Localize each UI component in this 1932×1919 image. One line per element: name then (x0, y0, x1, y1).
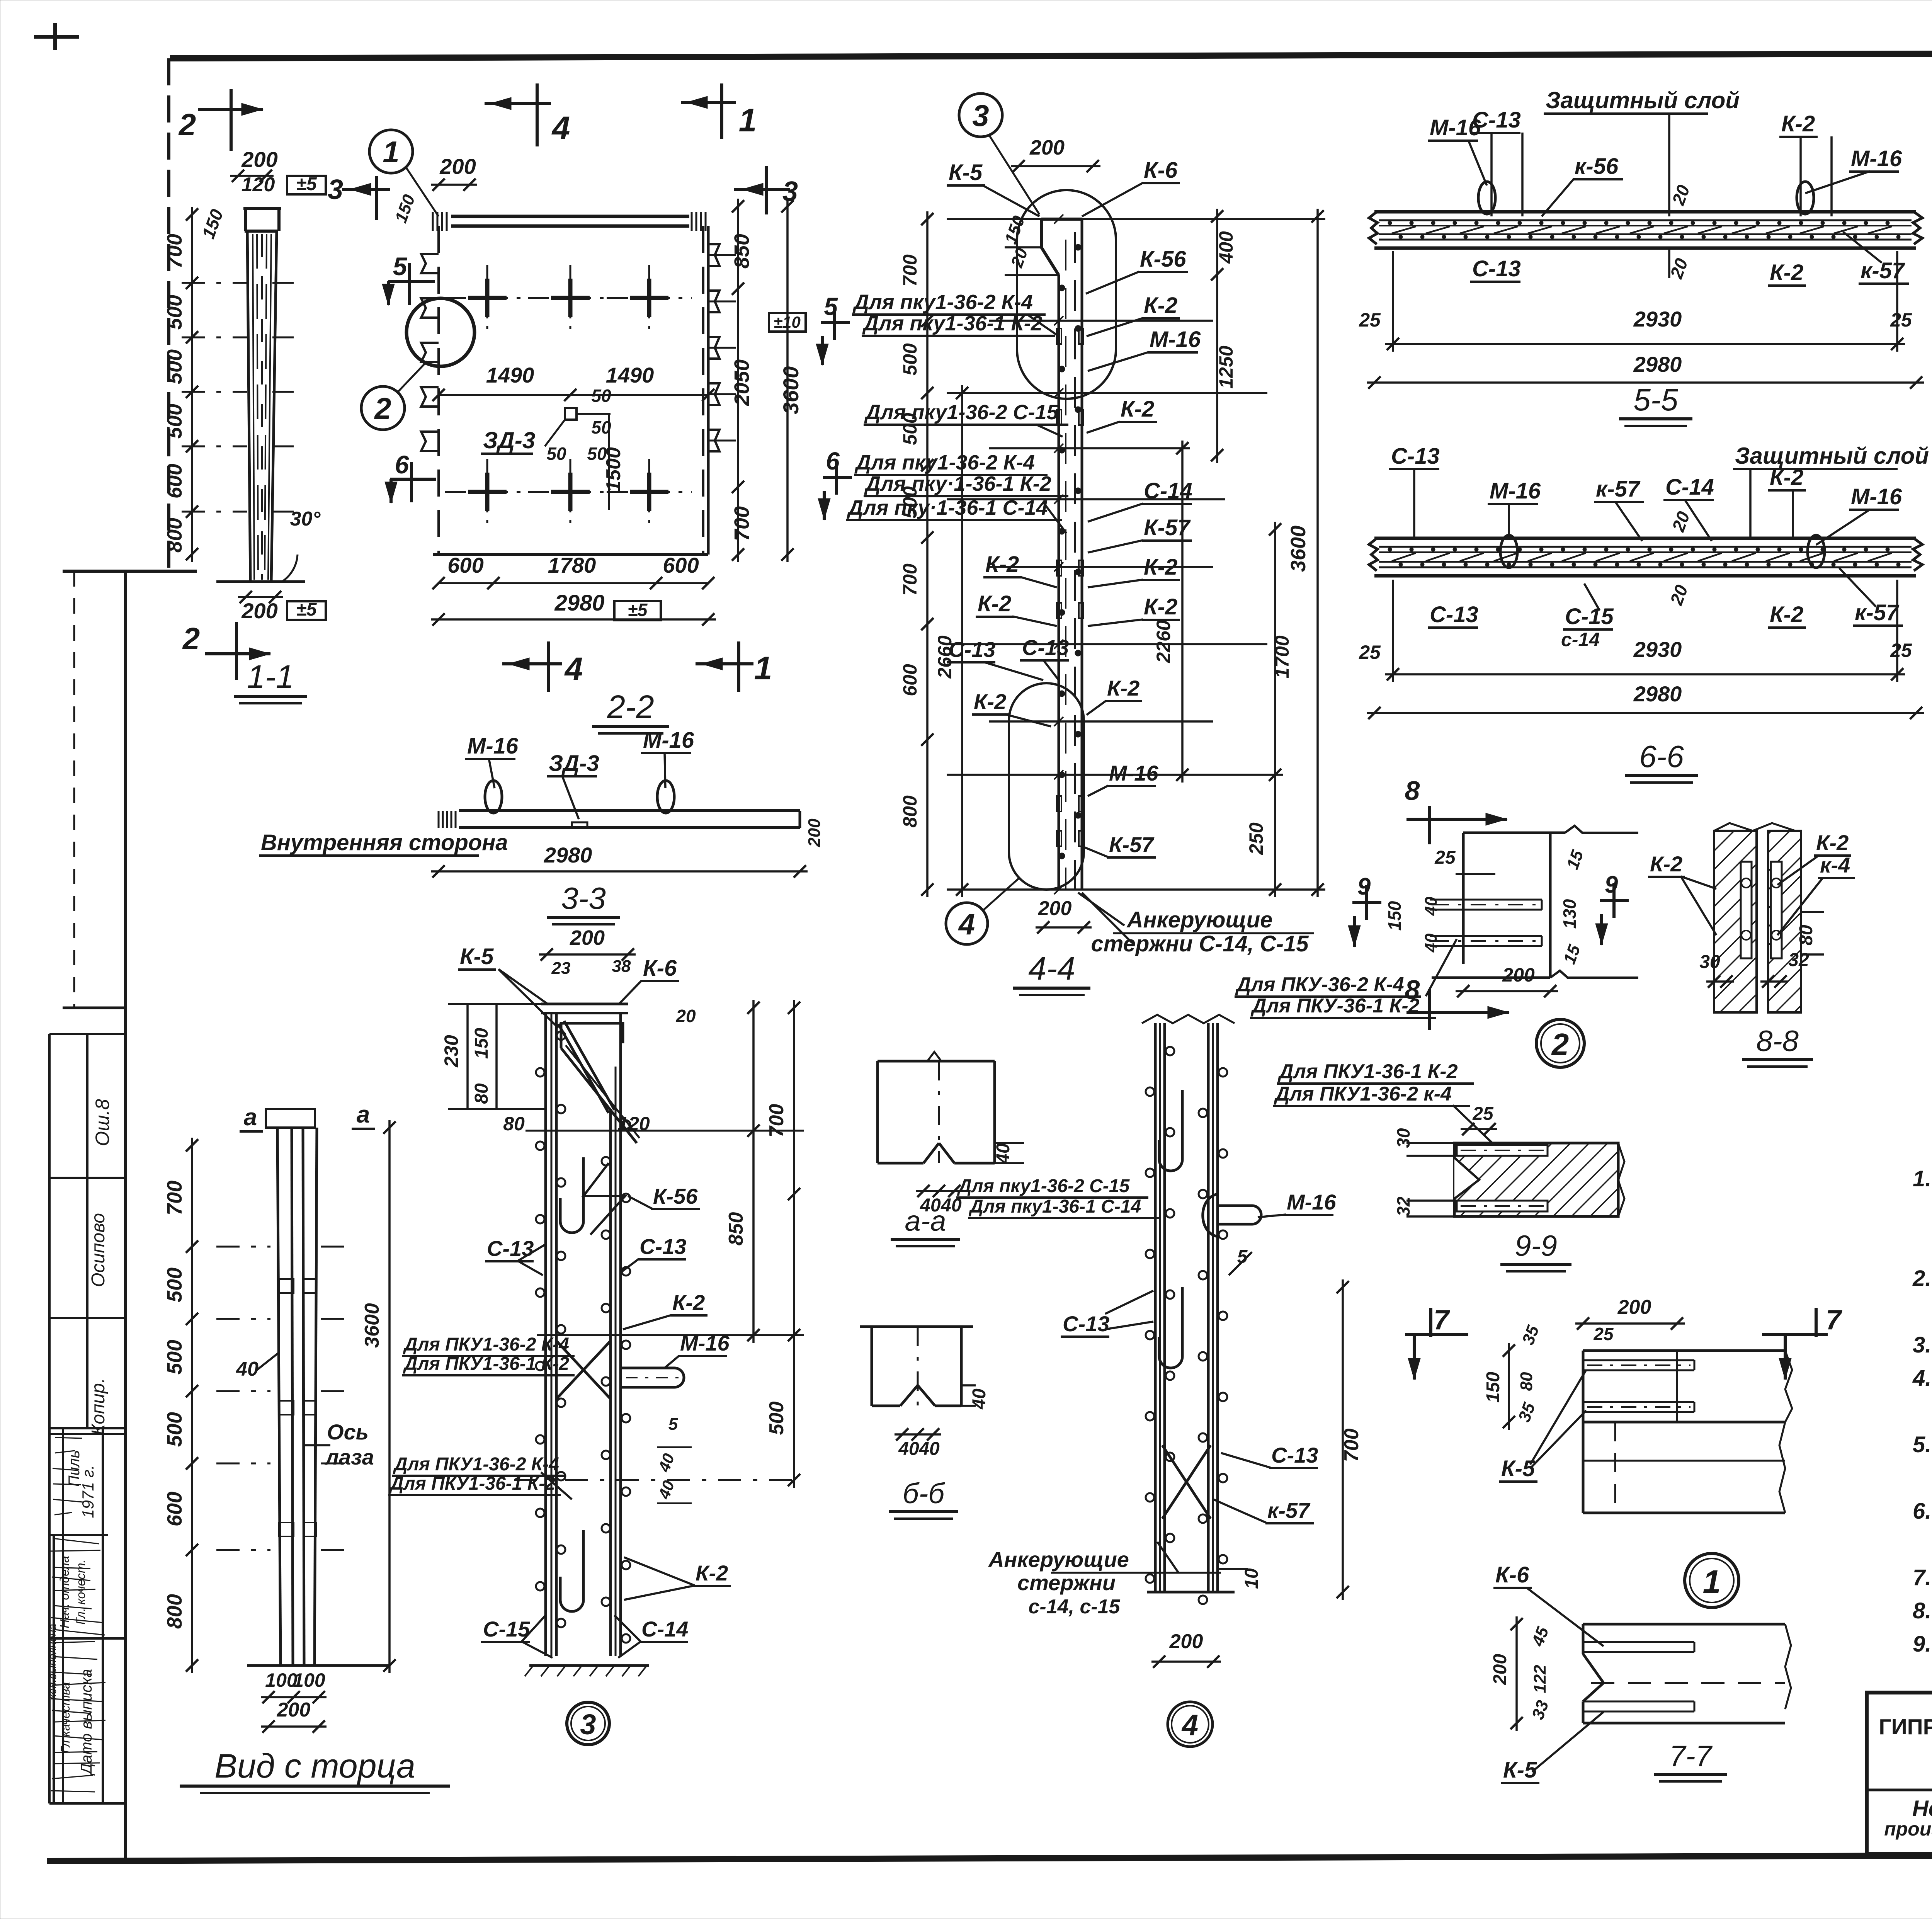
svg-text:М-16: М-16 (1287, 1190, 1336, 1214)
svg-text:а: а (244, 1104, 257, 1131)
svg-text:Для пку1-36-2 С-15: Для пку1-36-2 С-15 (957, 1176, 1130, 1196)
view 1-1 tolerance box top (287, 176, 326, 194)
svg-text:к-57: к-57 (1861, 258, 1905, 283)
svg-text:Ош.8: Ош.8 (92, 1099, 113, 1146)
det77 lower body (1583, 1623, 1785, 1626)
svg-text:80: 80 (503, 1113, 525, 1135)
det8 slots (1430, 899, 1542, 901)
svg-text:230: 230 (440, 1035, 462, 1068)
detail4 hook top (1159, 1090, 1182, 1171)
section 5-5 M-16 loops (1478, 182, 1495, 214)
svg-text:К-2: К-2 (1650, 852, 1682, 876)
svg-text:лаза: лаза (324, 1445, 374, 1469)
svg-text:500: 500 (163, 1267, 186, 1302)
svg-text:С-13: С-13 (1472, 107, 1521, 133)
svg-text:100: 100 (293, 1669, 325, 1691)
svg-text:200: 200 (805, 818, 824, 847)
svg-text:2980: 2980 (544, 843, 592, 867)
sec44 top stadium bubble (1017, 190, 1116, 399)
svg-text:с-14, с-15: с-14, с-15 (1028, 1596, 1120, 1618)
det77 section mark 7 left (1405, 1333, 1468, 1336)
svg-text:Нач. отдела: Нач. отдела (58, 1556, 71, 1628)
svg-text:Для ПКУ1-36-1 К-2: Для ПКУ1-36-1 К-2 (1277, 1060, 1458, 1083)
svg-text:1: 1 (383, 135, 399, 169)
svg-text:±5: ±5 (628, 600, 648, 620)
svg-text:1250: 1250 (1215, 345, 1237, 388)
svg-text:200: 200 (1038, 897, 1072, 920)
detail4 cross brace (1162, 1445, 1211, 1519)
detail4 top break (1142, 1015, 1235, 1023)
sheet frame top border (170, 52, 1932, 58)
svg-text:Анкерующие: Анкерующие (988, 1547, 1129, 1572)
svg-text:Для пку1-36-1 К-2: Для пку1-36-1 К-2 (862, 312, 1043, 335)
circle ref 1 (1685, 1553, 1739, 1608)
detail3 dim 850 right (752, 1000, 755, 1343)
svg-text:3-3: 3-3 (561, 881, 606, 915)
svg-text:2-2: 2-2 (607, 689, 654, 725)
det77 lower slots (1583, 1641, 1694, 1643)
svg-text:Для пку1-36-2 С-15: Для пку1-36-2 С-15 (864, 401, 1059, 424)
detail3 top cap (541, 1003, 628, 1005)
det99 right break (1618, 1143, 1624, 1216)
svg-text:а: а (357, 1101, 370, 1128)
svg-text:Для пку·1-36-1 С-14: Для пку·1-36-1 С-14 (847, 496, 1048, 519)
det99 bar slots (1457, 1145, 1548, 1156)
svg-text:Осипово: Осипово (88, 1213, 109, 1287)
svg-text:25: 25 (1593, 1324, 1614, 1344)
detail3 bent bar diagonal (558, 1024, 609, 1113)
stamp column left dashed edge (73, 571, 75, 1008)
svg-text:Гл. кочест.: Гл. кочест. (74, 1560, 88, 1625)
view 1-1 bar inner strokes (253, 234, 254, 580)
svg-text:Анкерующие: Анкерующие (1126, 907, 1273, 932)
end view top plate (266, 1109, 315, 1128)
svg-text:±5: ±5 (296, 174, 317, 194)
svg-text:700: 700 (1340, 1429, 1363, 1462)
svg-text:3600: 3600 (779, 366, 803, 415)
svg-text:б-б: б-б (903, 1477, 945, 1509)
svg-text:4-4: 4-4 (1028, 950, 1075, 987)
end view ground line (247, 1664, 390, 1667)
svg-text:к-57: к-57 (1267, 1498, 1311, 1523)
svg-text:Для ПКУ1-36-2 К-4: Для ПКУ1-36-2 К-4 (393, 1454, 559, 1475)
sec44 bottom dim 200 (1036, 926, 1092, 929)
svg-text:9: 9 (1357, 873, 1371, 900)
svg-text:Для ПКУ-36-2 К-4: Для ПКУ-36-2 К-4 (1235, 973, 1404, 996)
sec44 anchor rods note (1078, 893, 1124, 925)
svg-text:9.: 9. (1913, 1631, 1931, 1657)
svg-text:40: 40 (993, 1143, 1014, 1164)
svg-text:9-9: 9-9 (1515, 1230, 1557, 1262)
svg-text:200: 200 (241, 147, 277, 172)
svg-text:К-2: К-2 (1144, 555, 1177, 580)
svg-text:3: 3 (782, 176, 798, 207)
svg-text:К-2: К-2 (1121, 396, 1154, 422)
stamp column right edge (124, 571, 127, 1859)
svg-text:6-6: 6-6 (1639, 739, 1684, 774)
view 2-2 left edge dashed (437, 226, 440, 555)
svg-text:М-16: М-16 (1490, 478, 1541, 504)
sheet frame left border (167, 58, 170, 571)
view 2-2 bottom edge (433, 553, 708, 556)
svg-text:200: 200 (1169, 1630, 1203, 1653)
svg-text:2050: 2050 (730, 359, 753, 406)
svg-text:1: 1 (739, 102, 757, 138)
detail3 right bars (609, 1109, 612, 1656)
svg-text:К-2: К-2 (1107, 676, 1139, 700)
svg-text:К-6: К-6 (1495, 1562, 1529, 1587)
view 2-2 insert ZD-3 (565, 408, 577, 420)
svg-text:800: 800 (899, 795, 921, 828)
view 2-2 big detail circle on edge (406, 298, 474, 366)
sec44 section mark 5 (821, 321, 850, 324)
svg-text:2980: 2980 (554, 590, 604, 616)
svg-text:150: 150 (471, 1028, 492, 1059)
svg-text:600: 600 (663, 553, 699, 577)
svg-text:800: 800 (163, 1594, 186, 1629)
section 3-3 strip body (459, 809, 800, 812)
detail4 bars (1154, 1023, 1157, 1592)
svg-text:20: 20 (675, 1006, 696, 1026)
svg-text:10: 10 (1242, 1568, 1262, 1589)
svg-text:7.: 7. (1913, 1565, 1931, 1590)
detail3 K-56 zigzag (583, 1163, 625, 1235)
svg-text:Копир.: Копир. (88, 1378, 109, 1435)
view 2-2 left hooks (421, 254, 439, 273)
det8 section mark 8 bottom (1428, 989, 1431, 1030)
detail3 circle ref 3 (567, 1702, 609, 1745)
svg-text:С-13: С-13 (487, 1236, 534, 1261)
svg-text:Внутренняя сторона: Внутренняя сторона (261, 830, 508, 855)
circle ref 2 (1536, 1019, 1584, 1067)
svg-text:500: 500 (163, 349, 186, 384)
svg-text:850: 850 (725, 1212, 747, 1246)
svg-text:С-15: С-15 (1565, 604, 1614, 629)
svg-text:ЗД-3: ЗД-3 (483, 427, 535, 453)
detail3 hook J lower (560, 1530, 583, 1611)
svg-text:25: 25 (1472, 1104, 1494, 1124)
svg-text:40: 40 (1422, 897, 1440, 916)
svg-text:Гл качества: Гл качества (58, 1682, 72, 1753)
svg-text:К-2: К-2 (1770, 602, 1803, 627)
sec44 circle ref 4 (946, 903, 988, 944)
svg-text:производительностью: производительностью (1884, 1818, 1932, 1840)
svg-text:4: 4 (1181, 1709, 1198, 1742)
svg-text:3.: 3. (1913, 1332, 1931, 1358)
panel rebar dots (1388, 221, 1392, 225)
svg-text:к-57: к-57 (1596, 476, 1641, 502)
svg-text:С-13: С-13 (1430, 602, 1478, 627)
svg-text:32: 32 (1393, 1196, 1413, 1216)
svg-text:С-15: С-15 (483, 1617, 530, 1641)
end view right bar (303, 1128, 304, 1666)
det8 section mark 8 top (1428, 806, 1431, 844)
svg-text:250: 250 (1245, 822, 1267, 855)
svg-text:коп.выполнена: коп.выполнена (46, 1624, 58, 1699)
view 1-1 left dim chain (191, 207, 193, 562)
svg-text:К-2: К-2 (1144, 293, 1177, 318)
detail3 ground hatch (529, 1664, 649, 1667)
stamp cells (63, 1007, 126, 1009)
svg-text:Для ПКУ-36-1 К-2: Для ПКУ-36-1 К-2 (1250, 995, 1420, 1017)
svg-text:С-13: С-13 (949, 637, 995, 662)
svg-text:5.: 5. (1913, 1432, 1931, 1457)
svg-text:а-а: а-а (905, 1205, 946, 1237)
svg-text:400: 400 (1215, 231, 1237, 264)
detail4 bottom line (1147, 1591, 1235, 1594)
svg-text:Дато выписка: Дато выписка (78, 1669, 95, 1776)
svg-text:С-14: С-14 (1665, 475, 1714, 500)
svg-text:С-13: С-13 (639, 1234, 686, 1259)
svg-text:М-16: М-16 (1150, 327, 1201, 352)
view 2-2 bottom dims 600 1780 600 (439, 582, 708, 584)
svg-text:850: 850 (730, 234, 753, 269)
det88 top break (1714, 823, 1795, 831)
svg-text:К-56: К-56 (653, 1184, 698, 1208)
section mark 1 bottom of 2-2 (696, 662, 753, 665)
svg-text:1.: 1. (1913, 1166, 1931, 1191)
svg-text:500: 500 (163, 1412, 186, 1447)
detail3 K-5 inner bent bar (561, 1023, 623, 1048)
view 2-2 right corner comb (691, 212, 693, 231)
panel inner hatch (1392, 553, 1416, 561)
svg-text:К-5: К-5 (1503, 1757, 1537, 1783)
svg-text:М-16: М-16 (1851, 146, 1902, 171)
svg-text:6: 6 (395, 450, 410, 479)
view 1-1 ground line (216, 580, 305, 583)
det77 upper slots (1583, 1359, 1694, 1361)
svg-text:200: 200 (1029, 136, 1065, 159)
svg-text:800: 800 (163, 518, 186, 553)
sec44 left dim chain (926, 211, 929, 897)
panel right end cap (1913, 538, 1922, 571)
svg-text:К-57: К-57 (1109, 832, 1155, 857)
title block outer box (1867, 1693, 1932, 1854)
svg-text:М-16: М-16 (1109, 761, 1158, 785)
svg-text:150: 150 (1384, 901, 1405, 931)
svg-text:2260: 2260 (1153, 620, 1174, 663)
detail4 dim 700 right (1342, 1279, 1344, 1600)
svg-text:1971 г.: 1971 г. (79, 1465, 97, 1518)
svg-text:150: 150 (1483, 1372, 1503, 1403)
sec44 rebar marks (1075, 244, 1081, 250)
svg-text:1500: 1500 (602, 447, 625, 492)
svg-text:600: 600 (447, 553, 483, 577)
svg-text:7-7: 7-7 (1669, 1740, 1713, 1773)
svg-text:25: 25 (1359, 641, 1381, 663)
svg-text:23: 23 (551, 959, 571, 978)
view 2-2 left corner comb (432, 212, 434, 231)
svg-text:Защитный слой: Защитный слой (1735, 443, 1929, 469)
svg-text:к-56: к-56 (1575, 154, 1619, 179)
svg-text:Для ПКУ1-36-1 К-2: Для ПКУ1-36-1 К-2 (389, 1473, 555, 1494)
svg-text:8: 8 (1405, 776, 1420, 806)
svg-text:К-6: К-6 (1144, 158, 1178, 183)
svg-text:600: 600 (163, 1492, 186, 1526)
section 6-6 M-16 loops (1500, 535, 1517, 568)
det99 hatched body (1454, 1143, 1618, 1216)
section 6-6 dims (1385, 673, 1905, 675)
svg-text:М-16: М-16 (467, 733, 519, 759)
svg-text:С-14: С-14 (641, 1617, 688, 1641)
svg-text:стержни: стержни (1017, 1570, 1116, 1595)
detail4 M-16 loop right (1218, 1206, 1261, 1224)
svg-text:Для пку1-36-2 К-4: Для пку1-36-2 К-4 (854, 451, 1035, 474)
svg-text:700: 700 (163, 1181, 186, 1215)
svg-text:К-2: К-2 (985, 552, 1019, 577)
view 1-1 bottom dim 200 (238, 596, 283, 598)
view 1-1 tolerance box bottom (287, 601, 326, 620)
det8 section mark 9 right (1600, 899, 1629, 902)
svg-text:стержни С-14, С-15: стержни С-14, С-15 (1091, 931, 1309, 956)
section mark 4 top (485, 102, 551, 105)
det8 section mark 9 left (1352, 901, 1381, 904)
end view bar clips (279, 1279, 294, 1293)
svg-text:6: 6 (826, 447, 840, 475)
svg-text:122: 122 (1531, 1665, 1549, 1693)
svg-text:25: 25 (1359, 309, 1381, 331)
svg-text:С-13: С-13 (1472, 256, 1521, 281)
view 1-1 section mark 2 top (198, 108, 263, 111)
svg-text:К-2: К-2 (696, 1561, 728, 1585)
svg-text:Для пку1-36-2 К-4: Для пку1-36-2 К-4 (852, 291, 1033, 314)
svg-text:М-16: М-16 (680, 1331, 730, 1355)
svg-text:1: 1 (754, 650, 772, 686)
section mark 4 bottom of 2-2 (502, 662, 562, 665)
sec44 column top cap (1041, 218, 1082, 221)
sec44 detail circle 3 callout (959, 94, 1002, 137)
svg-text:30: 30 (1699, 952, 1720, 972)
svg-text:80: 80 (1796, 925, 1816, 946)
svg-text:500: 500 (163, 1340, 186, 1375)
sec44 ladder rungs (947, 218, 1325, 220)
sec44 left dim 2660 (961, 385, 963, 897)
view 2-2 section mark 6 (390, 478, 436, 481)
sec44 section mark 6 (823, 476, 852, 479)
svg-text:К-2: К-2 (978, 591, 1011, 616)
panel left end cap (1369, 212, 1378, 244)
view 2-2 right edge solid (707, 226, 710, 555)
detail3 hook J upper (560, 1157, 583, 1233)
svg-text:1700: 1700 (1271, 635, 1293, 678)
svg-text:4: 4 (551, 110, 570, 146)
svg-text:Ось: Ось (327, 1420, 369, 1444)
svg-text:9: 9 (1605, 871, 1618, 898)
svg-text:700: 700 (730, 506, 753, 541)
svg-text:К-2: К-2 (1781, 111, 1815, 136)
det77 lower right break (1785, 1624, 1791, 1709)
det77 upper body (1583, 1349, 1785, 1352)
det8 verticals (1462, 833, 1465, 964)
svg-text:8-8: 8-8 (1756, 1025, 1799, 1058)
svg-text:1-1: 1-1 (247, 658, 294, 695)
svg-text:2930: 2930 (1633, 637, 1682, 662)
svg-text:1490: 1490 (486, 363, 534, 387)
svg-text:2980: 2980 (1633, 682, 1682, 706)
detail3 rebar dots (557, 1031, 565, 1040)
sec44 right dim 3600 (1316, 209, 1319, 897)
panel inner hatch (1392, 226, 1416, 233)
svg-text:Защитный слой: Защитный слой (1546, 87, 1740, 113)
detail4 bottom dim 200 (1151, 1660, 1221, 1663)
svg-text:1490: 1490 (606, 363, 654, 387)
detail3 left bars (544, 1013, 547, 1656)
svg-text:2980: 2980 (1633, 352, 1682, 376)
view 2-2 top band (451, 215, 689, 218)
end view left bar (277, 1128, 281, 1666)
svg-text:Нефтеловушки: Нефтеловушки (1912, 1796, 1932, 1821)
panel right end cap (1913, 212, 1922, 244)
svg-text:С-14: С-14 (1144, 478, 1192, 504)
svg-text:5-5: 5-5 (1633, 383, 1678, 417)
panel body outline (1374, 210, 1916, 214)
svg-text:25: 25 (1890, 640, 1912, 661)
svg-text:200: 200 (570, 926, 605, 949)
det77 lower block (1582, 1422, 1585, 1513)
svg-text:4: 4 (958, 908, 975, 941)
detail4 circle ref 4 (1168, 1702, 1213, 1747)
svg-text:1: 1 (1703, 1563, 1721, 1600)
svg-text:3600: 3600 (1287, 526, 1310, 572)
svg-text:К-2: К-2 (1816, 830, 1849, 855)
sheet frame bottom border (47, 1854, 1932, 1861)
svg-text:8.: 8. (1913, 1598, 1931, 1623)
end view level dashes (216, 1246, 270, 1248)
svg-text:М-16: М-16 (1851, 484, 1902, 509)
view 2-2 section mark 3 right (734, 188, 790, 191)
svg-text:К-2: К-2 (672, 1290, 705, 1315)
svg-text:700: 700 (765, 1104, 788, 1138)
svg-text:600: 600 (163, 464, 186, 498)
panel rebar dots (1388, 548, 1392, 551)
view 2-2 detail circle 2 callout (361, 386, 405, 430)
svg-text:1780: 1780 (548, 553, 596, 577)
svg-text:600: 600 (899, 664, 921, 696)
svg-text:200: 200 (1502, 964, 1535, 986)
svg-text:5: 5 (668, 1415, 678, 1434)
svg-text:80: 80 (471, 1083, 492, 1104)
det8 bottom (1432, 977, 1550, 979)
svg-text:Для пку1-36-1 С-14: Для пку1-36-1 С-14 (968, 1196, 1141, 1217)
svg-text:С-13: С-13 (1271, 1443, 1318, 1467)
svg-text:130: 130 (1560, 899, 1580, 929)
sec44 right dims 2260 1700 250 (1181, 441, 1184, 783)
svg-text:25: 25 (1434, 847, 1456, 868)
svg-text:700: 700 (163, 234, 186, 269)
detail a-a dims 40 40 bottom (916, 1190, 962, 1192)
svg-text:500: 500 (163, 404, 186, 439)
svg-text:6.: 6. (1913, 1499, 1931, 1524)
svg-text:40: 40 (236, 1358, 259, 1380)
view 2-2 mid dim line 1490+1490 (439, 394, 708, 396)
detail3 grid lines right (526, 1130, 804, 1132)
view 2-2 right dim chain 850 2050 700 (737, 199, 739, 562)
svg-text:700: 700 (899, 563, 921, 596)
panel body outline (1374, 537, 1916, 540)
svg-text:±5: ±5 (296, 599, 317, 620)
svg-text:с-14: с-14 (1561, 629, 1600, 650)
svg-text:Для ПКУ1-36-2 К-4: Для ПКУ1-36-2 К-4 (403, 1334, 569, 1355)
svg-text:Для пку·1-36-1 К-2: Для пку·1-36-1 К-2 (864, 472, 1051, 495)
svg-text:К-57: К-57 (1144, 515, 1191, 540)
svg-text:2: 2 (182, 621, 200, 656)
svg-text:2930: 2930 (1633, 307, 1682, 331)
view 2-2 tolerance box pm10 (769, 313, 806, 332)
svg-text:К-2: К-2 (974, 689, 1006, 714)
svg-text:С-13: С-13 (1022, 635, 1069, 660)
det77 section mark 7 right (1762, 1333, 1828, 1336)
svg-text:К-2: К-2 (1770, 465, 1803, 490)
